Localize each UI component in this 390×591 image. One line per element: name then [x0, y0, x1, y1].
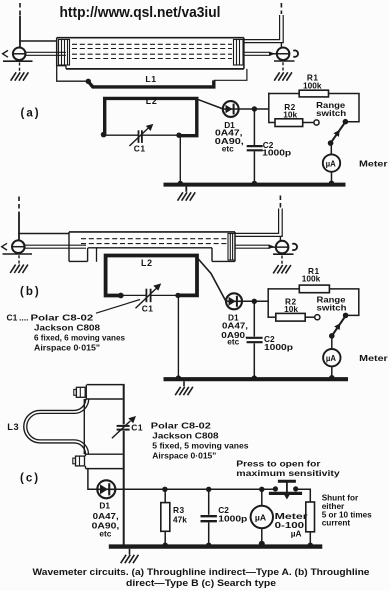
resistor R1 (a) — [299, 90, 328, 97]
connector J2 right (a) — [273, 48, 299, 61]
node chassis line left (b) — [3, 253, 33, 255]
wire ground rail (b) — [164, 377, 349, 381]
wire left feed vertical (a) — [19, 16, 21, 48]
node switch pivot dot (a) — [343, 119, 349, 125]
wire left feed tee (a) — [19, 40, 57, 42]
node button left contact dot (c) — [273, 486, 278, 491]
svg-text:switch: switch — [316, 108, 346, 118]
svg-text:L3: L3 — [7, 422, 19, 432]
wire tap down to rail (a) — [179, 135, 181, 183]
ground left (b) — [10, 265, 28, 273]
svg-text:maximum sensitivity: maximum sensitivity — [236, 468, 340, 478]
wire R3 top lead (c) — [164, 489, 166, 502]
svg-text:etc: etc — [99, 529, 111, 539]
svg-text:direct—Type B (c) Search type: direct—Type B (c) Search type — [126, 578, 276, 588]
wire C1 left lead (a) — [105, 134, 139, 136]
wire left feed tee (b) — [18, 233, 69, 235]
wire L2 to D1 slant (b) — [197, 258, 226, 302]
svg-text:Airspace 0·015": Airspace 0·015" — [152, 450, 216, 460]
svg-text:Polar C8-02: Polar C8-02 — [31, 313, 94, 323]
svg-text:µA: µA — [291, 528, 302, 538]
svg-text:(b): (b) — [20, 286, 41, 298]
node junction C1/rail tap (b) — [175, 293, 180, 298]
capacitor C2 (b) — [247, 338, 263, 342]
wire center conductor stub left (a) — [26, 52, 67, 55]
svg-text:current: current — [322, 517, 351, 527]
switch S2 stem (c) — [286, 481, 288, 494]
wire R2 left lead (a) — [269, 122, 275, 124]
node coax dashed inner conductors (a) — [72, 44, 232, 58]
wire D1 output bus (c) — [115, 488, 275, 490]
wire switch to meter (a) — [330, 143, 332, 155]
diode D1 (b) — [226, 293, 242, 309]
coax left end cap (a) — [59, 40, 70, 66]
wire D1 output (b) — [242, 300, 268, 302]
connector J1 left (b) — [2, 240, 25, 253]
wire meter to rail (b) — [331, 366, 333, 377]
wire C2 top lead (b) — [253, 301, 255, 336]
coax through-line body (b) — [69, 232, 235, 262]
wire R1 left lead (a) — [268, 93, 299, 95]
connector J2 right (b) — [272, 241, 298, 254]
wire ground stub right (b) — [281, 256, 283, 265]
node junction tap/rail (b) — [176, 375, 182, 381]
node switch open contact (b) — [315, 315, 320, 320]
svg-text:....: .... — [19, 313, 28, 323]
wire tap down to rail (b) — [177, 295, 179, 377]
wire C2 bottom lead (b) — [253, 343, 255, 377]
wire ground rail (a) — [164, 183, 346, 187]
node switch lower dot (b) — [329, 333, 335, 339]
node junction C1/rail tap (a) — [176, 133, 181, 138]
wire direct tap to L2 (b) — [96, 248, 98, 262]
node switch lower dot (a) — [328, 140, 334, 146]
svg-text:1000p: 1000p — [218, 514, 247, 524]
node junction shunt/rail (c) — [308, 543, 313, 548]
resistor R shunt (c) — [306, 502, 315, 532]
resistor R3 (c) — [161, 503, 170, 532]
node top post bolt (c) — [74, 387, 85, 397]
ground right (a) — [274, 72, 292, 80]
svg-text:µA: µA — [255, 513, 266, 523]
wire rail ground stub (c) — [129, 549, 131, 555]
capacitor C1 variable (c) — [112, 416, 136, 438]
node junction C2 tap (a) — [252, 106, 257, 111]
svg-text:D1: D1 — [99, 501, 110, 511]
ground rail (c) — [121, 555, 139, 563]
svg-text:100k: 100k — [302, 274, 321, 284]
wire ground stub right (a) — [282, 62, 284, 72]
svg-text:6 fixed, 6 moving vanes: 6 fixed, 6 moving vanes — [34, 332, 125, 342]
wire R2 right lead (a) — [303, 122, 314, 124]
node chassis line right (a) — [274, 60, 295, 62]
wire center conductor stub right (a) — [244, 52, 274, 56]
switch S2 closed contact bar (c) — [269, 492, 302, 495]
inductor L1 coupling bar (a) — [89, 80, 214, 87]
wire center conductor stub left (b) — [25, 245, 87, 248]
svg-text:47k: 47k — [173, 514, 187, 524]
svg-text:C1: C1 — [142, 303, 154, 313]
node chassis line left (a) — [3, 60, 33, 62]
svg-text:L2: L2 — [146, 96, 158, 106]
node junction L1 (a) — [86, 79, 91, 84]
node right antenna dash (a) — [280, 3, 282, 14]
wire ground stub left (a) — [19, 63, 21, 73]
wire R2 left lead (b) — [268, 316, 276, 318]
wire C1 right lead (a) — [142, 134, 178, 136]
ground left (a) — [11, 72, 29, 80]
wire ground stub left (b) — [18, 255, 20, 264]
wire R3 bottom lead (c) — [164, 531, 166, 544]
node junction meter/rail (a) — [329, 181, 335, 187]
node chassis line right (b) — [273, 253, 294, 255]
node junction C2/rail (a) — [252, 181, 258, 187]
svg-text:(a): (a) — [21, 108, 41, 120]
coax right end cap (a) — [234, 40, 244, 66]
wire ground rail (c) — [109, 544, 322, 548]
wire meter to rail (a) — [331, 172, 333, 183]
wire switch to meter (b) — [331, 336, 333, 349]
capacitor C1 variable (b) — [136, 283, 162, 308]
inductor L2 loop (a) — [105, 98, 197, 135]
wire C2 bottom lead (c) — [208, 522, 210, 544]
node junction C2 tap (c) — [206, 487, 211, 492]
coax right end hatched cap (b) — [228, 234, 235, 261]
diode D1 (a) — [223, 101, 239, 117]
inductor L2 loop (b) — [106, 256, 197, 296]
wire right feed stub to connector (b) — [279, 236, 281, 241]
diode D1 (c) — [97, 480, 115, 498]
wire leader line C1 spec (b) — [96, 300, 140, 314]
svg-text:µA: µA — [326, 159, 336, 168]
capacitor C1 variable (a) — [129, 124, 153, 146]
svg-text:http://www.qsl.net/va3iul: http://www.qsl.net/va3iul — [60, 5, 221, 21]
svg-text:1000p: 1000p — [264, 342, 293, 352]
node chassis plate left edge (c) — [83, 399, 85, 454]
wire C2 bottom lead (a) — [253, 151, 255, 183]
svg-text:etc: etc — [227, 337, 239, 347]
svg-text:µA: µA — [326, 354, 336, 363]
svg-text:(c): (c) — [20, 473, 40, 485]
wire rail ground stub (b) — [183, 381, 185, 386]
svg-text:C1: C1 — [7, 313, 18, 323]
switch S1 lever (b) — [332, 314, 347, 336]
svg-text:Wavemeter circuits. (a) Throug: Wavemeter circuits. (a) Throughline indi… — [33, 567, 370, 577]
node junction C2/rail (b) — [252, 375, 258, 381]
node junction C2 tap (b) — [252, 299, 257, 304]
capacitor C2 (c) — [201, 516, 217, 521]
svg-text:Meter: Meter — [359, 353, 388, 363]
svg-text:0A47,: 0A47, — [93, 511, 119, 521]
ground rail (b) — [175, 387, 193, 395]
svg-text:C1: C1 — [134, 143, 146, 153]
wire L1 right lead (a) — [214, 69, 247, 80]
ground rail (a) — [178, 192, 196, 200]
node chassis plate right edge upper (c) — [123, 385, 125, 425]
wire R1 left lead (b) — [268, 288, 300, 290]
wire D1 output (a) — [239, 108, 269, 110]
capacitor C2 (a) — [247, 146, 263, 150]
coax through-line body (a) — [57, 38, 244, 69]
switch S1 lever (a) — [331, 120, 347, 143]
svg-text:L1: L1 — [145, 74, 156, 84]
svg-text:switch: switch — [317, 303, 347, 313]
node button right contact dot (c) — [293, 486, 298, 491]
svg-text:5 fixed, 5 moving vanes: 5 fixed, 5 moving vanes — [152, 441, 248, 451]
wire R1 right lead and right rail (b) — [329, 289, 358, 316]
svg-text:C1: C1 — [131, 423, 143, 433]
node coax dashed inner conductors (b) — [81, 239, 228, 244]
node chassis plate right edge lower (c) — [123, 431, 125, 545]
svg-text:etc: etc — [222, 143, 234, 153]
wire C2 top lead (c) — [208, 489, 210, 515]
wire ladder left vertical (b) — [267, 288, 269, 318]
wire center conductor stub right (b) — [235, 245, 273, 249]
svg-text:1000p: 1000p — [262, 147, 291, 157]
node switch open contact (a) — [314, 120, 319, 125]
node switch pivot dot (b) — [343, 313, 349, 319]
wire shunt bottom lead (c) — [309, 532, 311, 545]
wire left feed vertical (b) — [18, 213, 20, 241]
meter M1 (c) — [251, 506, 273, 528]
svg-text:Airspace 0·015": Airspace 0·015" — [34, 342, 100, 352]
wire R2 right lead (b) — [305, 316, 314, 318]
ground right (b) — [273, 265, 291, 273]
wire bottom post to D1 (c) — [88, 469, 97, 490]
node junction tap/rail (a) — [178, 181, 184, 187]
node right antenna dash (b) — [279, 196, 281, 208]
connector J1 left (a) — [3, 48, 26, 61]
wire button to shunt (c) — [296, 489, 311, 502]
wire ladder left vertical (a) — [268, 93, 270, 124]
wire rail ground stub (a) — [185, 187, 187, 192]
node junction meter tap (c) — [259, 487, 264, 492]
wire C1 left lead (b) — [121, 294, 146, 296]
svg-text:10k: 10k — [284, 304, 298, 314]
wire meter top lead (c) — [261, 489, 263, 506]
node top terminal post (c) — [86, 385, 125, 399]
meter M1 (b) — [323, 349, 340, 366]
node junction C2/rail (c) — [206, 543, 211, 548]
wire L2 to D1 slant (a) — [197, 99, 223, 109]
node bottom post bolt (c) — [73, 456, 85, 466]
node left antenna dash (a) — [19, 3, 21, 16]
meter M1 (a) — [323, 154, 340, 171]
resistor R2 (a) — [275, 119, 303, 127]
node junction meter/rail (c) — [259, 541, 265, 547]
node junction R3 tap (c) — [162, 487, 167, 492]
wire L1 left lead (a) — [57, 65, 87, 81]
svg-text:Jackson C808: Jackson C808 — [34, 322, 100, 332]
wire C1 right lead (b) — [151, 294, 178, 296]
svg-text:L2: L2 — [141, 258, 153, 268]
wire R1 right lead and right rail (a) — [329, 94, 360, 122]
svg-text:100k: 100k — [303, 81, 322, 91]
wire right feed double-L (b) — [235, 209, 282, 237]
svg-text:Jackson C808: Jackson C808 — [152, 430, 219, 440]
resistor R2 (b) — [276, 313, 305, 321]
wire meter bottom lead (c) — [261, 528, 263, 543]
resistor R1 (b) — [299, 285, 329, 293]
wire right feed double-L (a) — [244, 15, 283, 43]
switch S2 stem arrowhead (c) — [284, 494, 291, 500]
node bottom terminal post (c) — [86, 454, 123, 468]
svg-text:10k: 10k — [283, 110, 297, 120]
switch S2 push button cap (c) — [278, 480, 296, 483]
node junction R3/rail (c) — [163, 543, 168, 548]
svg-text:Polar C8-02: Polar C8-02 — [151, 421, 211, 431]
wire C2 top lead (a) — [253, 109, 255, 145]
node junction meter/rail (b) — [329, 375, 335, 381]
inductor L3 hairpin outer (c) — [24, 399, 86, 454]
wire right feed stub to connector (a) — [280, 43, 282, 48]
svg-text:Meter: Meter — [359, 158, 388, 168]
node L2 stub terminal dot (b) — [118, 293, 124, 299]
node left antenna dash (b) — [18, 197, 20, 213]
node L2 open terminal dot (a) — [101, 132, 107, 138]
inductor L3 hairpin inner (c) — [27, 399, 89, 454]
